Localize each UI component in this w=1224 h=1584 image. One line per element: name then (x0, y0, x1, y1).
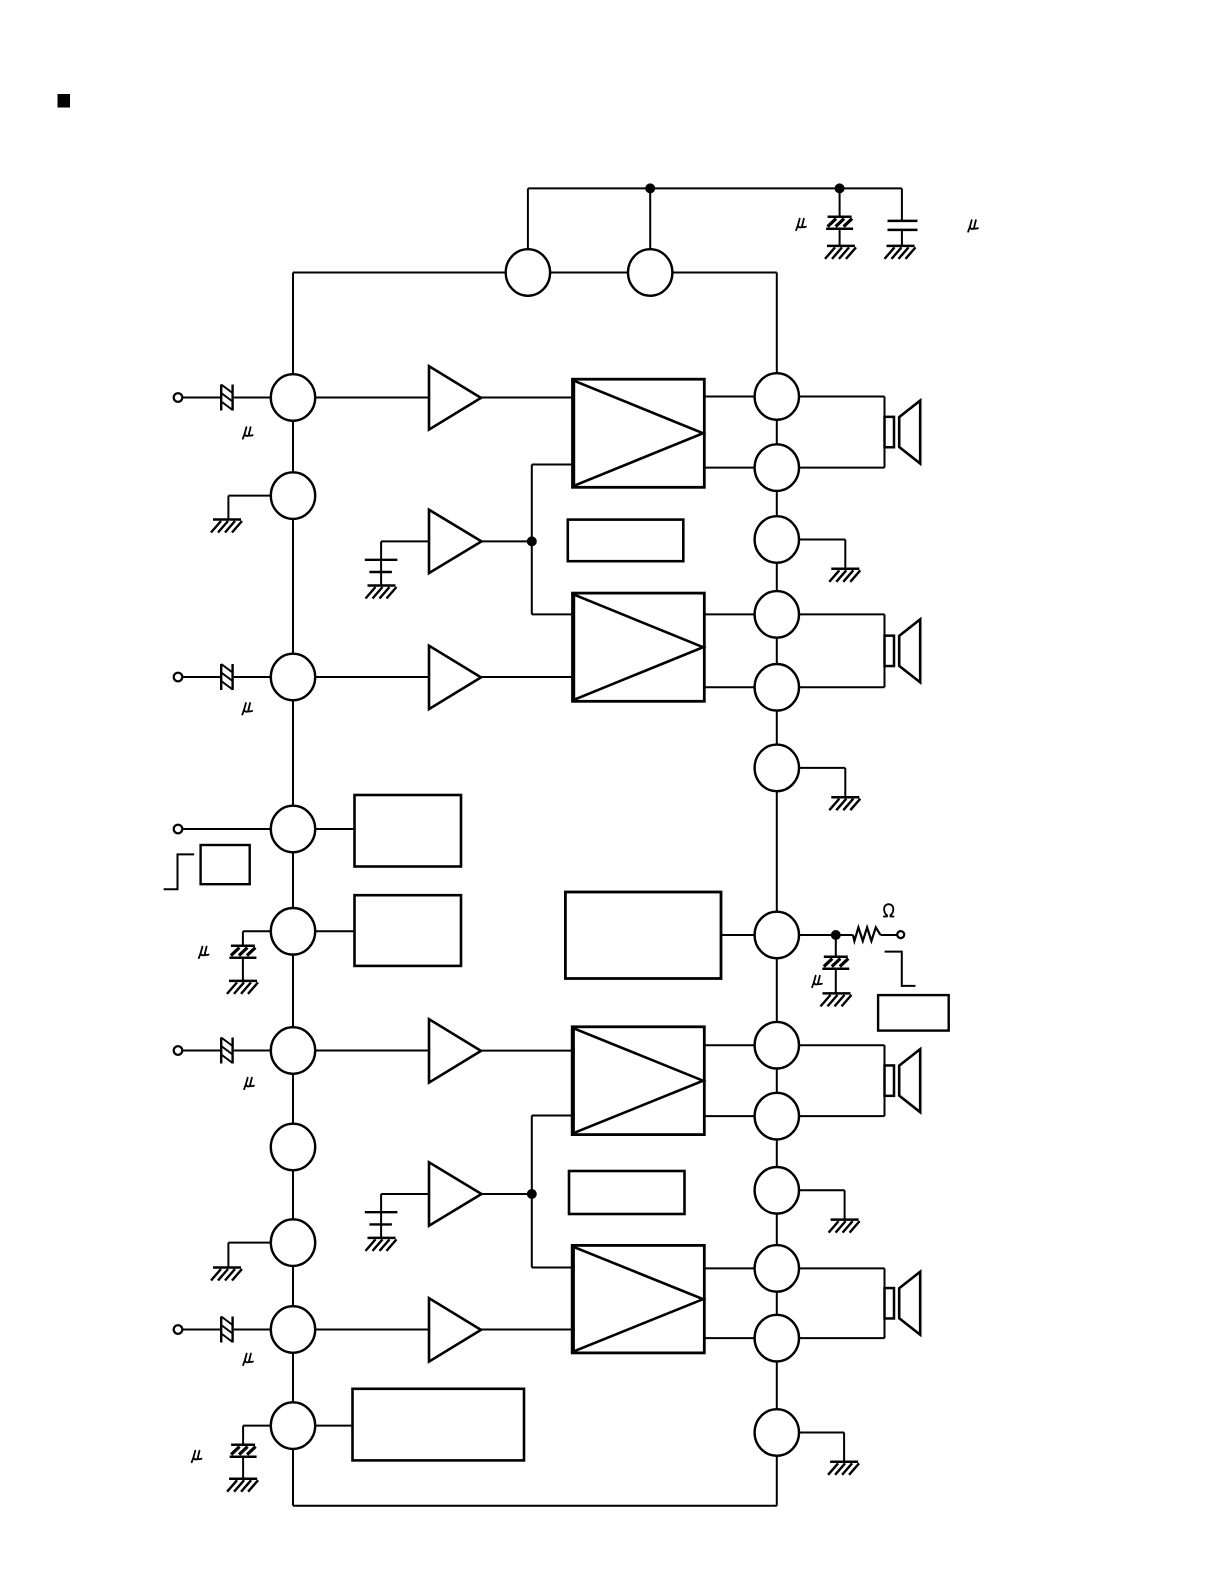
pin OUT1- (755, 444, 799, 491)
capacitor C1 electrolytic supply (826, 188, 853, 246)
label C8 value u (192, 1451, 202, 1463)
wire junction to PA2 input (532, 541, 573, 614)
speaker SP1 (799, 397, 920, 468)
block ST-BY threshold box (201, 845, 250, 884)
capacitor C2 supply (888, 188, 918, 245)
input terminal ST-BY (174, 825, 271, 834)
amplifier A2 input wire (315, 676, 429, 678)
block voltage reference (565, 892, 721, 979)
amplifier A4 input wire (315, 1329, 429, 1331)
wire AGND1 to ground (228, 496, 270, 520)
wire SVR pin to junction (799, 934, 836, 936)
node A5 output junction (527, 536, 537, 546)
label C2 value u (968, 220, 978, 232)
block mute 1 (568, 520, 684, 562)
wire A6 output (482, 1193, 532, 1195)
wire PGND3 to ground (799, 1190, 845, 1219)
node SVR junction (831, 930, 841, 940)
power amplifier PA3 (572, 1027, 704, 1135)
title bullet square (58, 94, 71, 108)
pin ST-BY (271, 806, 315, 853)
block mute 2 (569, 1171, 685, 1214)
block standby logic (355, 795, 462, 867)
pin SVR2 (271, 1402, 315, 1449)
wire AGND2 to ground (228, 1243, 270, 1268)
wire junction to PA3 input (532, 1116, 572, 1195)
ground PGND2 (829, 797, 860, 810)
speaker SP2 (799, 614, 920, 687)
amplifier A4 (429, 1298, 481, 1361)
power amplifier PA4 (572, 1245, 704, 1353)
input terminal IN4 + capacitor C6 (174, 1317, 271, 1343)
pin Vcc1 (506, 249, 550, 296)
ground C8 (227, 1479, 258, 1492)
pin NC (271, 1124, 315, 1171)
ground PGND3 (829, 1220, 860, 1233)
pin AC-GND1 (271, 472, 315, 519)
amplifier A1 (429, 366, 481, 429)
capacitor C7 ripple-filter (229, 931, 270, 981)
ground A6 ref cap (366, 1238, 397, 1251)
wire PA2 out- (704, 686, 754, 688)
pin OUT2- (755, 664, 799, 711)
wire ST-BY pin to block (315, 828, 354, 830)
amplifier A3 (429, 1019, 481, 1082)
ground A5 ref cap (366, 586, 397, 599)
step-up waveform symbol (164, 854, 195, 889)
label R1 value ohm (884, 904, 894, 916)
label C4 value u (242, 703, 252, 715)
wire A3 to PA3 (481, 1050, 572, 1052)
pin SVR-R (755, 912, 799, 959)
wire bottom-left pin to block (315, 1425, 352, 1427)
wire right pin bus (672, 273, 777, 1506)
wire A4 to PA4 (481, 1329, 572, 1331)
capacitor C9 (822, 935, 849, 993)
label C3 value u (243, 427, 253, 439)
wire junction to PA1 inverting input (532, 465, 573, 542)
amplifier A3 input wire (315, 1050, 429, 1052)
speaker SP4 (799, 1268, 920, 1338)
wire A1 to PA1 (481, 397, 573, 399)
wire stub pin Vcc1 (527, 188, 529, 250)
wire PA1 out+ (704, 396, 754, 398)
label C5 value u (244, 1078, 254, 1090)
wire Vcc1-Vcc2 (550, 272, 628, 274)
label C6 value u (243, 1354, 253, 1366)
amplifier A1 input wire (315, 397, 429, 399)
block diagnostic (353, 1389, 525, 1461)
wire stub pin Vcc2 (649, 188, 651, 250)
amplifier A6 ref input network (365, 1194, 429, 1238)
ground AGND2 (211, 1268, 242, 1281)
wire left pin bus (293, 273, 777, 1506)
pin OUT1+ (755, 373, 799, 420)
pin SVR1 (271, 908, 315, 955)
ground PGND1 (829, 569, 860, 582)
ground C2 (885, 246, 916, 259)
input terminal IN1 + capacitor C3 (174, 385, 271, 411)
ground C9 (821, 993, 852, 1006)
pin IN1 (271, 374, 315, 421)
pin OUT3+ (755, 1022, 799, 1069)
pin OUT3- (755, 1093, 799, 1140)
pin PGND1 (755, 516, 799, 563)
block ripple reject (355, 895, 462, 966)
wire PGND1 to ground (799, 540, 845, 569)
pin OUT2+ (755, 591, 799, 638)
power amplifier PA1 (573, 379, 705, 487)
step-down waveform symbol (885, 952, 916, 986)
terminal R1 output (897, 931, 904, 938)
wire PA3 out+ (704, 1044, 754, 1046)
pin PGND3 (755, 1167, 799, 1214)
node junction Vcc-C1 (645, 183, 655, 193)
wire PA2 out+ (704, 613, 754, 615)
amplifier A5 ref input network (365, 541, 429, 585)
amplifier A6 (429, 1162, 482, 1225)
wire PA3 out- (704, 1115, 754, 1117)
ground AGND1 (211, 520, 242, 533)
wire SVR1 pin to block (315, 930, 354, 932)
pin IN2 (271, 654, 315, 701)
pin AC-GND2 (271, 1219, 315, 1266)
node junction rail-C1 (835, 183, 845, 193)
ground PGND4 (828, 1462, 859, 1475)
wire PA4 out+ (704, 1267, 754, 1269)
label C7 value u (199, 947, 209, 959)
node A6 output junction (527, 1189, 537, 1199)
wire block to SVR pin (721, 934, 755, 936)
amplifier A5 (429, 510, 482, 573)
pin OUT4+ (755, 1245, 799, 1292)
ground C1 (825, 246, 856, 259)
pin PGND4 (755, 1409, 799, 1456)
pin IN3 (271, 1027, 315, 1074)
wire junction to PA4 input (532, 1194, 572, 1268)
pin IN4 (271, 1306, 315, 1353)
speaker SP3 (799, 1045, 920, 1116)
block turn-on delay (878, 995, 949, 1031)
pin PGND2 (755, 745, 799, 792)
wire PGND4 to ground (799, 1433, 844, 1462)
wire PGND2 to ground (799, 768, 845, 797)
power amplifier PA2 (573, 593, 705, 701)
label C1 value u (796, 219, 806, 231)
ground C7 (227, 981, 258, 994)
input terminal IN2 + capacitor C4 (174, 664, 271, 690)
amplifier A2 (429, 646, 481, 709)
input terminal IN3 + capacitor C5 (174, 1038, 271, 1064)
label C9 value u (812, 976, 822, 988)
wire Vcc top rail (528, 187, 902, 189)
capacitor C8 (230, 1426, 271, 1479)
wire PA1 out- (704, 467, 754, 469)
resistor R1 (836, 927, 897, 941)
wire A5 output (482, 540, 532, 542)
wire PA4 out- (704, 1337, 754, 1339)
pin Vcc2 (628, 249, 672, 296)
wire A2 to PA2 (481, 676, 573, 678)
pin OUT4- (755, 1315, 799, 1362)
